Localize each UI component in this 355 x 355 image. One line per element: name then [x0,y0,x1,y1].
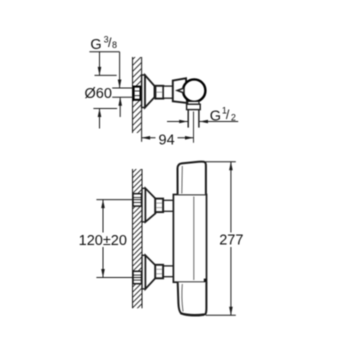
escutcheon flange (top valve) [142,75,145,108]
outlet nut [187,104,201,109]
G3/8 leader lines to nut [112,88,133,97]
svg-text:/: / [226,108,230,122]
escutcheon cone (top valve) [145,75,155,107]
inlet hex union (top valve) [155,86,163,99]
G1/2 leader left with arrow [167,120,188,124]
svg-text:8: 8 [112,40,117,50]
inlet connector (top valve) [163,86,173,98]
lower inlet stub [163,266,173,277]
text layer (grayscale AA) [79,35,244,249]
svg-text:G: G [210,108,221,124]
bottom cap [178,282,207,315]
120±20 text gap [80,233,127,248]
94 dimension line [142,136,194,140]
G3/8 underline [89,51,119,53]
G1/2 leader right with arrow [200,120,239,124]
Ø60 dimension: lower arrow [93,109,117,129]
G3/8 wall nut [134,87,141,100]
svg-text:277: 277 [219,233,243,249]
lever pointer [177,88,184,93]
G3/8 up arrow [118,97,122,117]
277 dimension [206,162,236,315]
wall (bottom, hatched) [128,154,146,323]
lower union hex nut [155,265,163,279]
bottom cap inner line [182,284,183,312]
pipe centerline [193,112,195,143]
svg-text:2: 2 [231,112,236,122]
120±20 dimension [96,200,141,278]
upper escutcheon flange [142,188,145,222]
outlet pipe [188,110,199,128]
lower wall nut [133,271,142,283]
handle knob circle [183,79,205,101]
svg-text:120±20: 120±20 [79,233,127,249]
svg-text:G: G [90,37,101,53]
277 text gap [218,233,245,248]
wall (top, hatched) [128,46,146,148]
outlet neck [188,101,199,104]
94 text gap [156,132,178,145]
Ø60 dimension: upper arrow [95,52,117,76]
body bottom-right black nub [204,279,207,282]
upper inlet stub [163,200,173,211]
upper escutcheon cone [145,188,155,222]
upper union hex nut [155,199,163,213]
valve body [173,78,187,103]
upper wall nut [133,194,142,206]
svg-text:Ø60: Ø60 [85,86,112,102]
top cap inner line [181,166,184,194]
thermostat body [173,195,206,283]
svg-text:94: 94 [159,133,175,149]
bottom cap thick base [181,313,205,315]
lower escutcheon cone [145,255,155,289]
lower escutcheon flange [142,255,145,289]
top cap [178,162,206,195]
G3/8 leader vertical + down arrow [118,52,122,88]
body inner line [193,197,195,281]
